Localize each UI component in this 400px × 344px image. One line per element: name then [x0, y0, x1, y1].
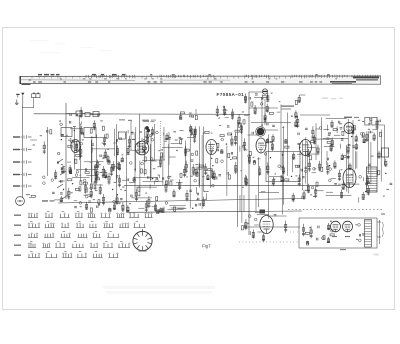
svg-text:Fig7: Fig7: [202, 244, 211, 249]
svg-text:F7085A–01: F7085A–01: [217, 92, 245, 97]
svg-text:7905: 7905: [373, 253, 379, 257]
